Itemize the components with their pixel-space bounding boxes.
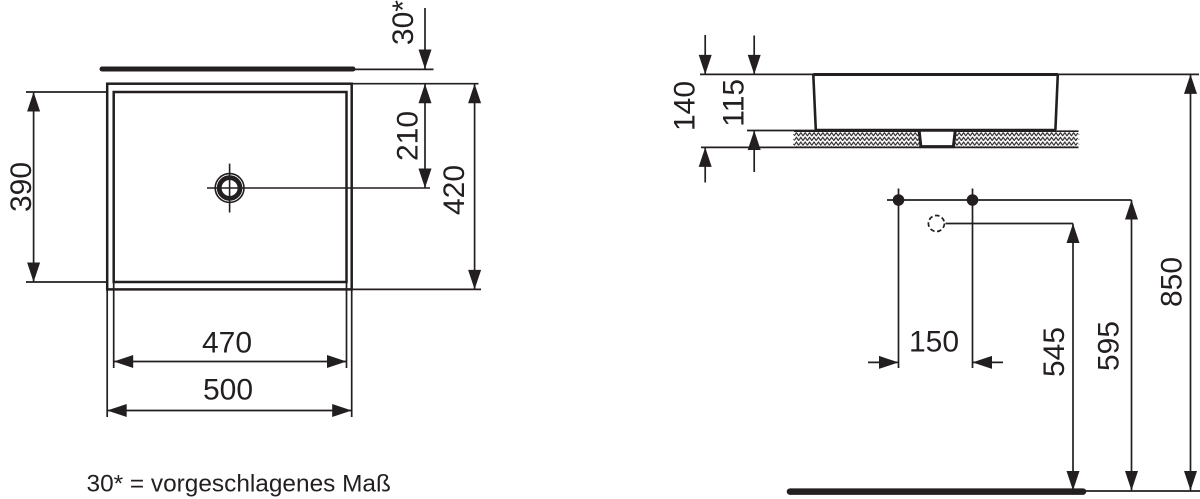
floor line thick [790,488,1083,495]
basin profile top edge [813,73,1058,76]
svg-text:30*: 30* [387,0,420,45]
fixing holes line [887,199,1132,201]
wall line (thick) [102,67,353,72]
countertop hatched strip [793,132,1080,146]
svg-text:390: 390 [5,162,38,212]
svg-text:150: 150 [909,326,959,359]
dimension line 210 [424,84,426,188]
dimension line 500 [107,410,352,412]
drain cutout in countertop [918,130,957,147]
svg-text:595: 595 [1093,321,1126,371]
wall level extension line [700,73,1199,75]
drain centerline vertical [229,164,231,213]
svg-text:850: 850 [1156,257,1189,307]
svg-text:545: 545 [1038,327,1071,377]
floor line thin [1086,490,1200,492]
extension line bottom of 390 [26,281,107,283]
extension line bottom of 140 [701,146,794,148]
tap hole level line [946,223,1074,225]
basin bottom edge [815,129,1056,132]
extension line bottom of 115 [747,130,816,132]
extension line inner-right below rect [346,282,348,368]
wire extension from wall line to 30* dimension [353,68,434,70]
svg-text:470: 470 [202,326,252,359]
dimension line 850 [1190,74,1192,490]
extension line top of 210/420 [352,83,479,85]
dimension line 595 [1131,200,1133,491]
dimension 150 arrows outside [868,361,899,363]
inner rectangle (basin inner 470x390) [114,92,347,282]
svg-text:115: 115 [718,79,751,127]
drain outer circle [215,174,244,203]
dimension line 390 [33,92,35,282]
extension line from right dot down [972,189,974,369]
svg-text:210: 210 [392,111,425,161]
svg-text:140: 140 [669,81,702,131]
dimension line 545 [1072,224,1074,491]
drain centerline horizontal [207,187,430,189]
extension line bottom of 420 [352,288,481,290]
fixing hole dot left [893,194,905,206]
extension line outer-right below rect [351,289,353,417]
outer rectangle (basin outline 500x420) [107,84,352,290]
dimension line 470 [114,361,347,363]
fixing hole dot right [967,194,979,206]
dimension 30* vertical line with down arrow [424,8,426,69]
svg-text:30* = vorgeschlagenes Maß: 30* = vorgeschlagenes Maß [87,471,391,498]
dimension line 140 [704,35,706,74]
basin right wall [1055,75,1057,131]
dimension line 420 [474,84,476,290]
svg-text:500: 500 [203,374,253,407]
extension line from left dot down [898,189,900,369]
extension line top of 390 [26,91,107,93]
svg-text:420: 420 [438,165,471,215]
dimension line 115 [753,36,755,75]
tap hole dashed circle [928,216,944,232]
extension line inner-left below rect [113,282,115,368]
drain inner ring [219,178,240,199]
basin left wall [813,75,816,131]
extension line outer-left below rect [106,289,108,417]
